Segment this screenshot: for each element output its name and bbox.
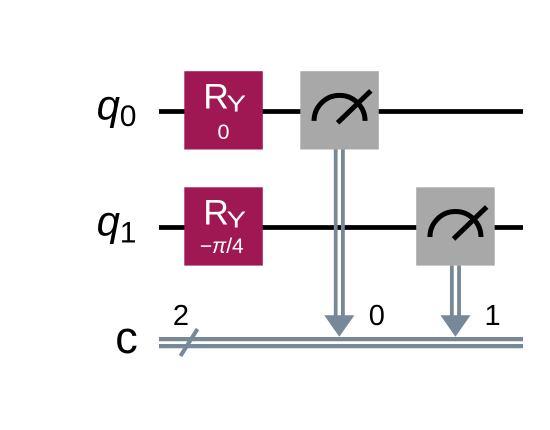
measure needle M0 bbox=[339, 93, 369, 122]
svg-text:Y: Y bbox=[227, 91, 247, 117]
wire q1 bbox=[159, 225, 523, 230]
svg-text:1: 1 bbox=[485, 300, 501, 332]
svg-text:2: 2 bbox=[173, 300, 189, 332]
svg-text:c: c bbox=[115, 312, 138, 363]
gate RY(-pi/4) on q1 bbox=[184, 187, 262, 265]
gate RY(0) on q0 bbox=[184, 71, 262, 149]
measure arc M0 bbox=[314, 95, 365, 121]
measurement arrowhead q0 bbox=[324, 315, 354, 337]
svg-text:−π/4: −π/4 bbox=[200, 235, 244, 258]
measurement arrow q1 -> c (double line) bbox=[450, 266, 454, 322]
measure gate M1 on q1 bbox=[416, 187, 495, 265]
svg-text:0: 0 bbox=[369, 300, 385, 332]
measure gate M0 on q0 bbox=[300, 71, 379, 149]
svg-text:Y: Y bbox=[227, 207, 247, 233]
measure arc M1 bbox=[430, 212, 481, 238]
svg-text:R: R bbox=[203, 76, 229, 116]
creg bundle slash bbox=[181, 329, 198, 356]
svg-text:R: R bbox=[203, 193, 229, 233]
svg-text:0: 0 bbox=[120, 100, 137, 133]
svg-text:0: 0 bbox=[218, 120, 230, 144]
svg-text:q: q bbox=[97, 82, 121, 129]
svg-text:q: q bbox=[97, 198, 121, 245]
measurement arrow q0 -> c (double line) bbox=[334, 149, 338, 322]
svg-text:1: 1 bbox=[120, 216, 137, 249]
classical wire c (double line) bbox=[159, 337, 523, 341]
wire q0 bbox=[159, 109, 523, 114]
measurement arrowhead q1 bbox=[440, 315, 470, 337]
measure needle M1 bbox=[455, 209, 485, 238]
